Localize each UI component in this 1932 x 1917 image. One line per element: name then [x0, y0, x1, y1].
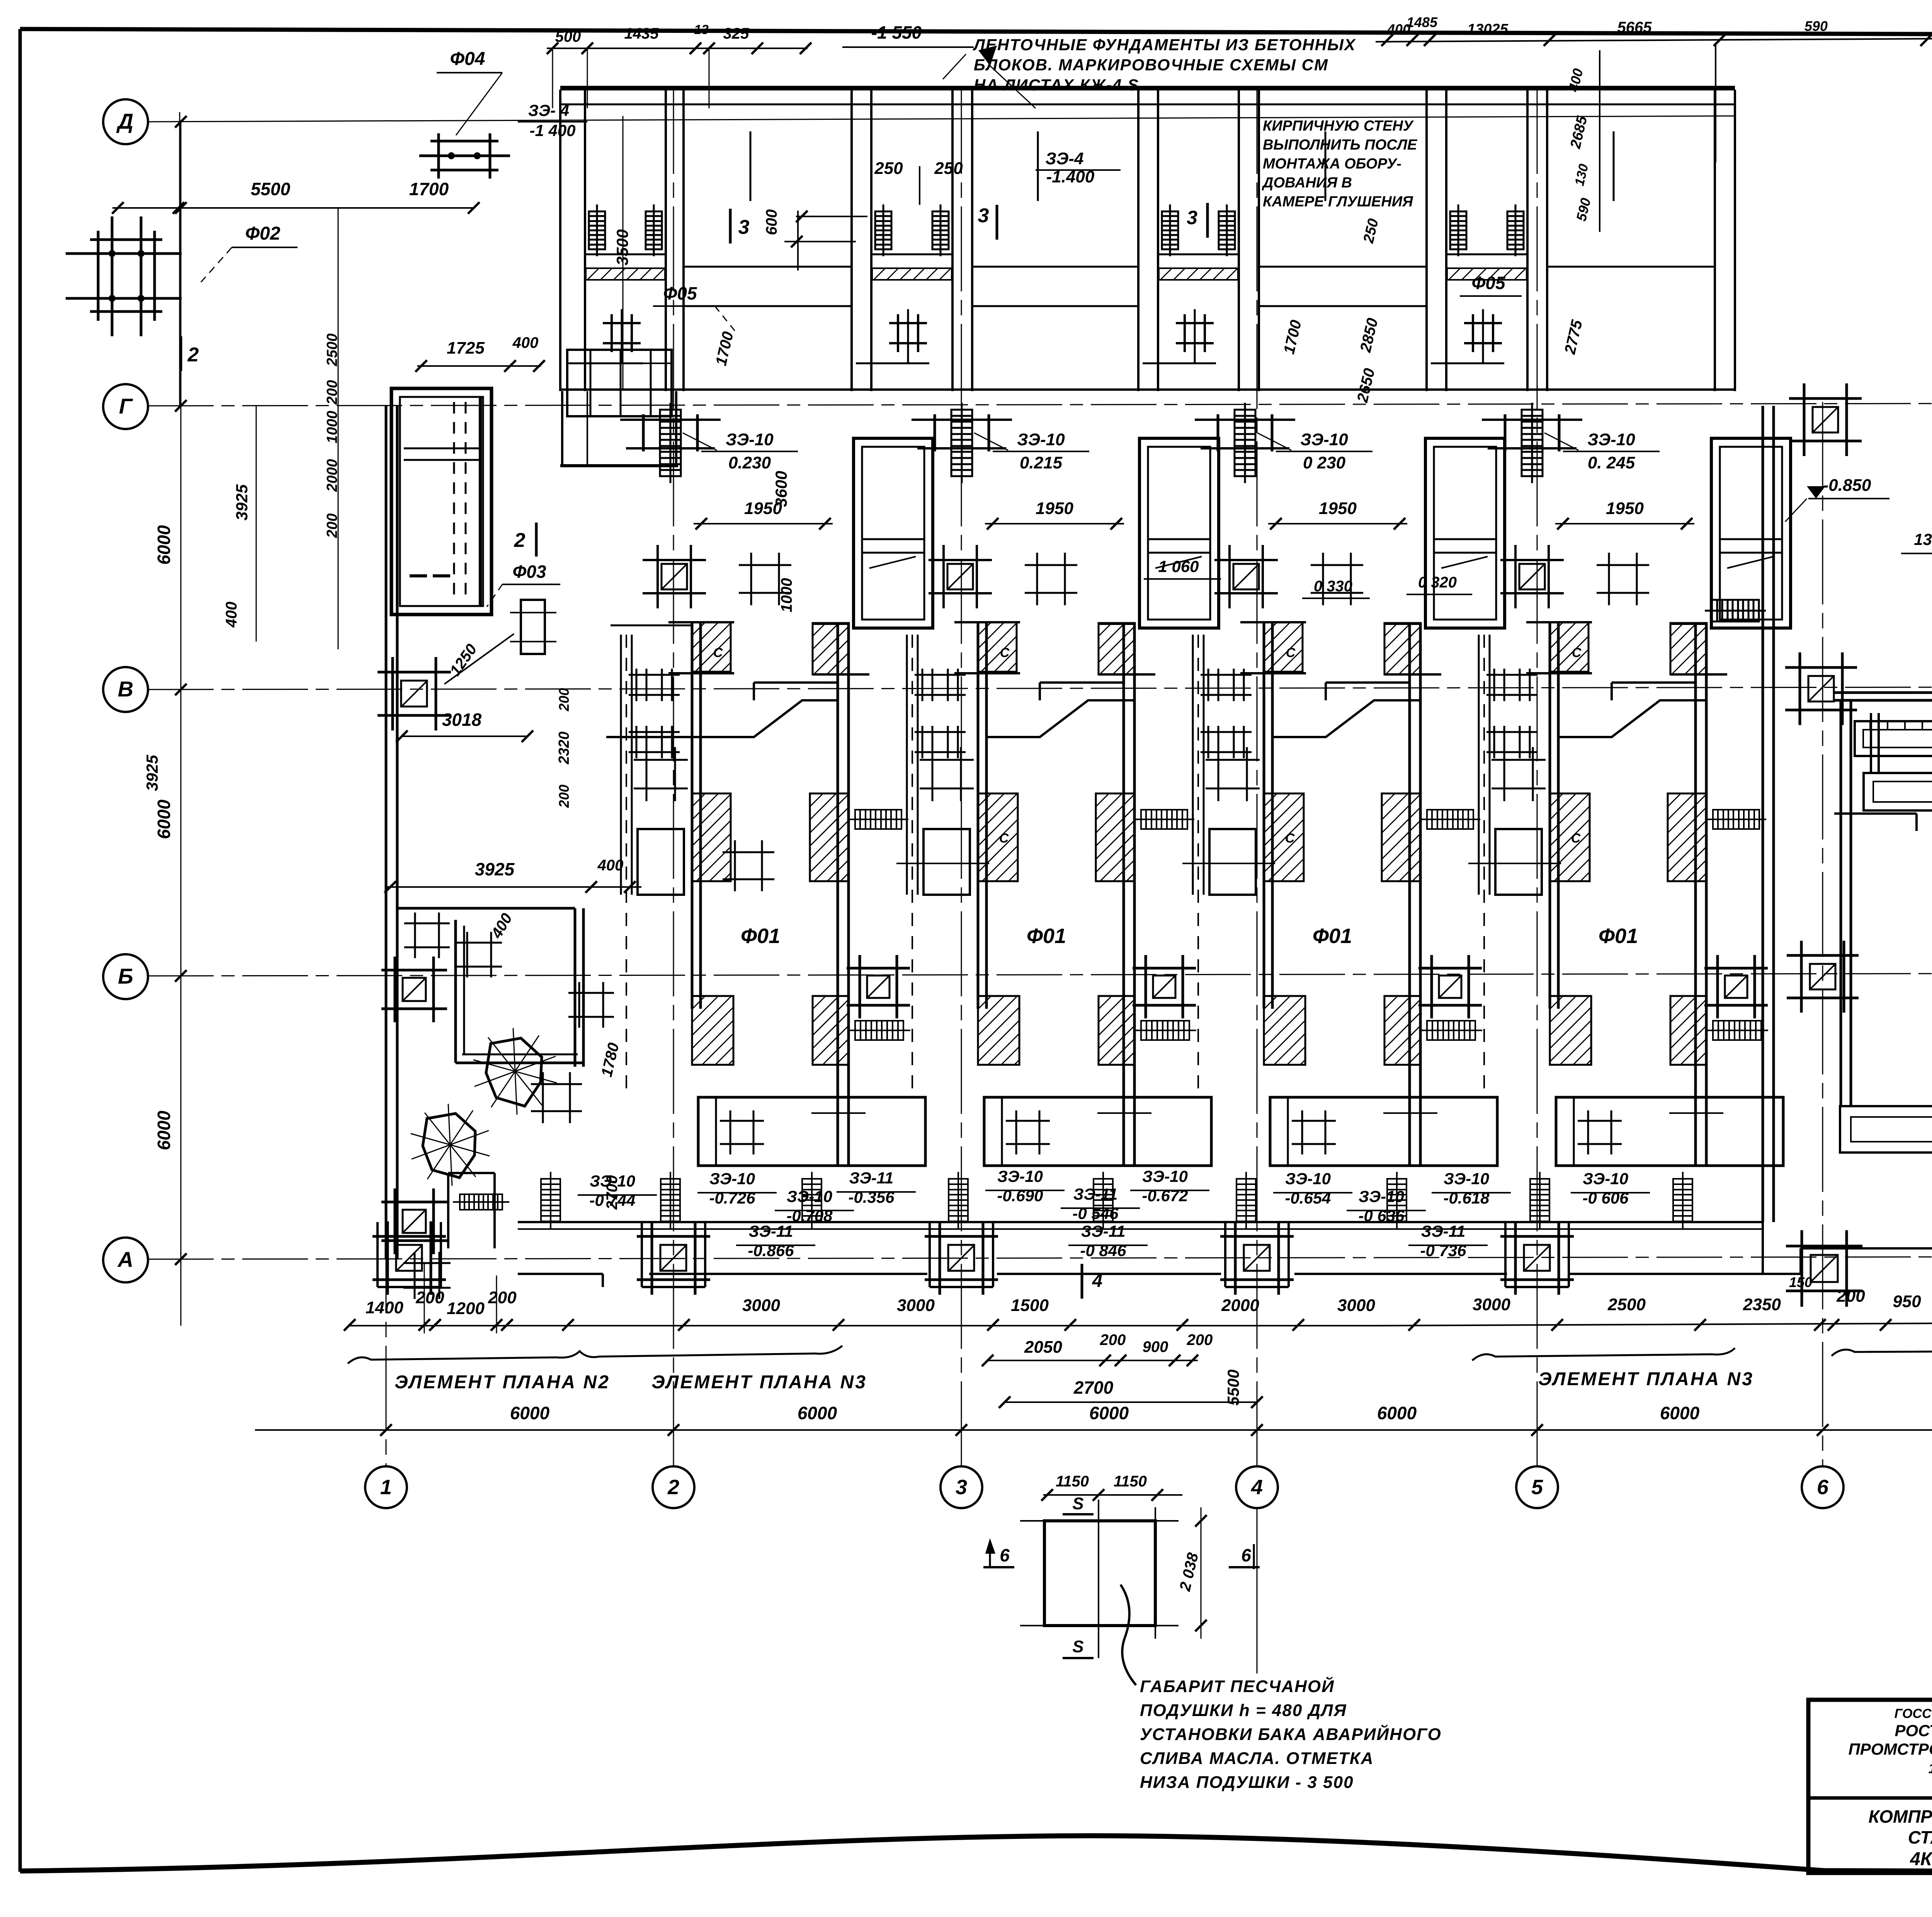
column mark	[720, 1110, 764, 1154]
svg-text:1725: 1725	[447, 339, 485, 358]
ventilation shaft walls	[1139, 438, 1219, 628]
axis line 4	[1257, 89, 1258, 1466]
header wall with chamfer	[606, 700, 838, 737]
svg-text:ЗЭ-10: ЗЭ-10	[1583, 1170, 1628, 1188]
svg-text:С: С	[1285, 831, 1295, 846]
room (wide) interior	[1259, 266, 1427, 268]
svg-text:С: С	[1571, 831, 1581, 846]
dim 1400 leaders	[424, 1264, 425, 1333]
svg-text:5500: 5500	[1224, 1369, 1242, 1405]
dimension 1250 (slanted)	[444, 634, 514, 684]
column mark	[1311, 553, 1363, 605]
svg-text:5665: 5665	[1617, 19, 1652, 36]
column mark	[634, 747, 688, 801]
hatched pier	[1668, 793, 1706, 881]
svg-text:-0 546: -0 546	[1072, 1204, 1119, 1222]
svg-text:Ф05: Ф05	[663, 283, 697, 303]
svg-text:S: S	[1072, 1637, 1083, 1656]
svg-text:2500: 2500	[1607, 1295, 1646, 1314]
svg-text:ГАБАРИТ ПЕСЧАНОЙ: ГАБАРИТ ПЕСЧАНОЙ	[1140, 1676, 1335, 1696]
window detail in strip left room	[567, 350, 672, 416]
hatched pier	[1264, 996, 1305, 1065]
svg-text:ПРОМСТРОИНИИПРОЕКТ: ПРОМСТРОИНИИПРОЕКТ	[1849, 1740, 1932, 1758]
column mark room1	[723, 840, 774, 891]
svg-text:250: 250	[934, 159, 963, 178]
lower pit outline	[698, 1097, 925, 1166]
svg-text:-0 744: -0 744	[589, 1191, 635, 1209]
lintels room1 left	[668, 621, 734, 623]
svg-text:1976 г.: 1976 г.	[1929, 1760, 1932, 1776]
wall jog at footing	[1224, 1222, 1226, 1287]
svg-text:БЛОКОВ. МАРКИРОВОЧНЫЕ СХЕМЫ СМ: БЛОКОВ. МАРКИРОВОЧНЫЕ СХЕМЫ СМ	[974, 56, 1328, 74]
svg-text:2000: 2000	[1221, 1296, 1259, 1315]
column mark	[403, 1252, 451, 1299]
room (narrow) interior	[585, 254, 666, 255]
svg-text:Б: Б	[118, 964, 133, 988]
anchor ladder	[1219, 204, 1235, 256]
svg-text:6000: 6000	[1660, 1403, 1700, 1423]
anchor ladder	[646, 204, 662, 256]
svg-text:13025: 13025	[1467, 21, 1509, 37]
lintel lines	[1099, 623, 1134, 625]
svg-text:ЗЭ-11: ЗЭ-11	[1421, 1222, 1466, 1240]
pit inner mark	[1383, 1112, 1437, 1114]
svg-text:1700: 1700	[409, 179, 449, 199]
room (wide) interior	[972, 266, 1138, 268]
svg-text:1485: 1485	[1406, 14, 1438, 30]
svg-text:500: 500	[555, 28, 581, 45]
axis bubble 1	[365, 1466, 407, 1508]
svg-text:ЗЭ-11: ЗЭ-11	[1081, 1222, 1126, 1240]
svg-text:ЗЭ-10: ЗЭ-10	[1285, 1170, 1331, 1188]
anchor ladder	[1706, 810, 1766, 829]
small walls left annex bottom	[447, 1173, 449, 1248]
lower pit outline	[984, 1097, 1211, 1166]
wall tee at Г axis	[1217, 414, 1219, 451]
equipment outline	[1495, 829, 1542, 895]
annex bottom walls	[1762, 1222, 1764, 1274]
bottom foundation wall	[518, 1221, 1763, 1223]
anchor ladder	[1420, 810, 1480, 829]
column mark	[1006, 1110, 1050, 1154]
column pair mark	[629, 726, 680, 758]
lintel lines	[1384, 623, 1420, 625]
pit inner mark	[1097, 1112, 1151, 1114]
axis line Б	[148, 973, 1932, 976]
svg-text:200: 200	[488, 1288, 517, 1307]
dimension 2050 200 900 200	[988, 1360, 1198, 1361]
svg-text:1500: 1500	[1011, 1296, 1049, 1315]
svg-text:3000: 3000	[897, 1296, 935, 1315]
svg-text:-0.708: -0.708	[786, 1207, 833, 1225]
hatched pier	[692, 622, 731, 672]
svg-text:ЗЭ-10: ЗЭ-10	[787, 1187, 832, 1205]
anchor ladder	[875, 204, 891, 256]
svg-text:4: 4	[1251, 1476, 1263, 1499]
svg-text:-0.690: -0.690	[997, 1187, 1043, 1205]
svg-text:ЗЭ-10: ЗЭ-10	[1142, 1167, 1188, 1185]
wall (upper strip partition)	[1526, 90, 1529, 391]
footing А axis	[637, 1221, 710, 1295]
svg-text:ГОССТРОЙ СССР: ГОССТРОЙ СССР	[1895, 1706, 1932, 1721]
svg-text:-0 736: -0 736	[1420, 1241, 1466, 1260]
sand cushion detail square	[1044, 1521, 1155, 1626]
anchor ladder	[1673, 1172, 1692, 1228]
anchor ladder	[1134, 810, 1194, 829]
anchor ladder	[1094, 1172, 1113, 1228]
column pair mark	[1486, 669, 1537, 701]
svg-text:С: С	[1000, 645, 1010, 660]
svg-text:250: 250	[874, 159, 903, 178]
wall tee at Г axis	[642, 414, 645, 451]
svg-text:МОНТАЖА ОБОРУ-: МОНТАЖА ОБОРУ-	[1263, 156, 1401, 172]
column mark	[929, 545, 992, 608]
svg-text:-0.726: -0.726	[709, 1189, 755, 1207]
svg-text:5500: 5500	[251, 179, 291, 199]
svg-text:-0.356: -0.356	[848, 1188, 895, 1206]
hatched pier	[978, 793, 1018, 881]
svg-text:200: 200	[324, 513, 340, 538]
svg-text:6000: 6000	[1089, 1403, 1129, 1423]
column mark	[1500, 545, 1564, 608]
anchor ladder	[1162, 204, 1178, 256]
svg-text:ЗЭ-4: ЗЭ-4	[1045, 149, 1083, 168]
axis bubble Б (left)	[103, 954, 148, 999]
svg-text:6: 6	[1241, 1545, 1251, 1565]
svg-text:-1 550: -1 550	[871, 22, 922, 43]
svg-text:Ф01: Ф01	[1599, 924, 1638, 948]
svg-text:1435: 1435	[624, 25, 659, 42]
svg-text:ЗЭ-10: ЗЭ-10	[1359, 1187, 1404, 1205]
foundation footing	[1133, 955, 1196, 1018]
wall tee at Г axis	[1504, 414, 1507, 451]
column pair mark	[915, 669, 966, 701]
room right wall (corridor)	[1408, 625, 1411, 1166]
room (wide) interior	[684, 266, 852, 268]
svg-text:-0.866: -0.866	[748, 1241, 794, 1260]
hatched pier	[813, 623, 849, 674]
upper building top wall	[560, 86, 1735, 90]
header ledge	[1612, 681, 1696, 684]
foundation footing	[1704, 955, 1768, 1018]
main hall left wall	[385, 406, 388, 1259]
svg-text:ЗЭ-10: ЗЭ-10	[1587, 430, 1635, 449]
column mark	[1025, 553, 1077, 605]
svg-text:-0.654: -0.654	[1285, 1189, 1331, 1207]
foundation footing	[1789, 383, 1862, 456]
svg-text:325: 325	[723, 25, 749, 42]
svg-text:3: 3	[956, 1476, 967, 1499]
svg-text:-1 400: -1 400	[529, 121, 575, 140]
svg-text:Г: Г	[119, 394, 133, 418]
svg-text:НА ЛИСТАХ КЖ-4 S: НА ЛИСТАХ КЖ-4 S	[974, 76, 1139, 94]
svg-text:1400: 1400	[366, 1298, 403, 1317]
wall (upper strip partition)	[951, 90, 954, 391]
svg-text:400: 400	[597, 857, 624, 874]
column mark	[531, 1072, 582, 1123]
wall (upper strip partition)	[1238, 90, 1240, 391]
lower pit outline	[1270, 1097, 1497, 1166]
svg-text:ЭЛЕМЕНТ ПЛАНА N3: ЭЛЕМЕНТ ПЛАНА N3	[1538, 1369, 1754, 1389]
wall pair at axis6 below В	[1870, 713, 1872, 773]
svg-text:Ф01: Ф01	[741, 924, 780, 948]
anchor ladder	[1530, 1172, 1549, 1228]
foundation footing	[1785, 652, 1857, 725]
anchor ladder	[1420, 1021, 1482, 1040]
svg-text:С: С	[1572, 645, 1582, 660]
room left wall of next room	[1549, 622, 1551, 1009]
svg-text:4К- 500А.: 4К- 500А.	[1910, 1849, 1932, 1869]
anchor ladder	[660, 403, 681, 483]
svg-text:ЗЭ-11: ЗЭ-11	[1073, 1185, 1118, 1203]
svg-text:S: S	[1072, 1494, 1083, 1513]
svg-text:600: 600	[763, 209, 780, 235]
column mark	[643, 545, 706, 608]
upper strip bottom wall	[560, 388, 1735, 391]
column pair mark	[1486, 726, 1537, 758]
wall jog at footing	[1504, 1222, 1507, 1287]
hatched pier	[1099, 623, 1135, 674]
room (narrow) interior	[871, 254, 952, 255]
tray lower rect	[1864, 773, 1932, 810]
svg-text:950: 950	[1893, 1292, 1921, 1311]
foundation footing	[1418, 955, 1482, 1018]
header ledge	[754, 681, 838, 684]
footing axis1 lower	[381, 1188, 447, 1254]
left annex walls	[397, 907, 575, 910]
svg-text:2: 2	[667, 1476, 679, 1499]
column mark	[920, 747, 974, 801]
axis line А	[148, 1256, 1932, 1259]
svg-text:1200: 1200	[447, 1299, 485, 1318]
column mark	[1206, 747, 1260, 801]
anchor ladder	[1450, 204, 1466, 256]
axis bubble Д (left)	[103, 99, 148, 144]
svg-text:КИРПИЧНУЮ СТЕНУ: КИРПИЧНУЮ СТЕНУ	[1263, 118, 1414, 134]
lintel to room1	[611, 625, 692, 627]
anchor ladder	[1705, 600, 1766, 621]
svg-text:СТАНЦИЯ: СТАНЦИЯ	[1908, 1827, 1932, 1847]
svg-text:200: 200	[1100, 1331, 1126, 1348]
svg-text:0.215: 0.215	[1020, 453, 1063, 472]
dimension row 6000	[255, 1429, 1932, 1431]
column Ф03	[521, 600, 545, 654]
dimension 1950	[694, 523, 833, 524]
svg-text:Ф01: Ф01	[1313, 924, 1352, 948]
equipment outline	[923, 829, 970, 895]
anchor ladder	[1507, 204, 1524, 256]
svg-text:Ф01: Ф01	[1027, 924, 1066, 948]
hatched pier	[1264, 622, 1303, 672]
foundation footing	[378, 657, 451, 730]
svg-text:Ф05: Ф05	[1471, 273, 1505, 293]
svg-text:СЛИВА МАСЛА. ОТМЕТКА: СЛИВА МАСЛА. ОТМЕТКА	[1140, 1749, 1374, 1768]
label ЗЭ-10	[993, 451, 1089, 452]
hatched pier	[978, 996, 1019, 1065]
axis line 1	[386, 406, 387, 1466]
svg-text:КОМПРЕССОРНАЯ: КОМПРЕССОРНАЯ	[1868, 1806, 1932, 1827]
title block	[1808, 1700, 1932, 1873]
wall (upper strip partition)	[850, 90, 853, 391]
leader to note	[943, 54, 966, 79]
dim 1725 400	[417, 365, 541, 367]
axis bubble 4	[1236, 1466, 1278, 1508]
footing А axis	[925, 1221, 998, 1295]
svg-text:-0.850: -0.850	[1823, 476, 1871, 495]
svg-text:Ф02: Ф02	[245, 223, 281, 244]
svg-text:1000: 1000	[778, 578, 795, 613]
svg-text:5: 5	[1531, 1476, 1543, 1499]
Ф02 footing detail	[66, 216, 182, 336]
hatched pier	[1096, 793, 1134, 881]
dimension chain 500 1435 13 325	[547, 48, 808, 49]
axis line Д	[148, 116, 1735, 122]
anchor ladder	[541, 1172, 560, 1228]
anchor ladder	[951, 403, 972, 483]
svg-text:3: 3	[978, 204, 989, 227]
lower pit outline	[1556, 1097, 1783, 1166]
hatched sill band	[1447, 268, 1527, 280]
room right wall (corridor)	[837, 625, 839, 1166]
wall (upper strip partition)	[559, 90, 561, 391]
svg-text:КАМЕРЕ ГЛУШЕНИЯ: КАМЕРЕ ГЛУШЕНИЯ	[1263, 194, 1413, 210]
axis bubble 6	[1802, 1466, 1844, 1508]
hatched pier	[1670, 996, 1707, 1065]
anchor ladder	[802, 1172, 821, 1228]
svg-text:-0.672: -0.672	[1142, 1187, 1188, 1205]
axis line 6	[1822, 402, 1823, 1466]
hatched pier	[1550, 622, 1588, 672]
column pair mark	[1201, 669, 1252, 701]
hatched sill band	[586, 268, 665, 280]
svg-text:ЗЭ-10: ЗЭ-10	[709, 1170, 755, 1188]
axis bubble А (left)	[103, 1238, 148, 1282]
svg-text:В: В	[118, 677, 133, 701]
svg-text:2000: 2000	[324, 459, 340, 492]
header wall with chamfer	[1272, 700, 1410, 737]
section mark 4 (bottom)	[1081, 1264, 1083, 1299]
dimension chain top right	[1376, 39, 1932, 42]
header ledge	[1040, 681, 1124, 684]
machine room outer walls	[1834, 691, 1932, 694]
hatched pier	[1550, 793, 1590, 881]
corridor chase walls	[1478, 635, 1480, 895]
svg-text:А: А	[117, 1247, 133, 1272]
label ЗЭ-10	[701, 451, 798, 452]
dimension 1950	[1555, 523, 1694, 524]
hatched pier	[1099, 996, 1135, 1065]
svg-text:3000: 3000	[1337, 1296, 1375, 1315]
svg-text:400: 400	[512, 334, 539, 351]
header ledge	[1326, 681, 1410, 684]
svg-text:3600: 3600	[772, 471, 790, 507]
anchor ladder	[589, 204, 605, 256]
anchor ladder	[1134, 1021, 1196, 1040]
hatched sill band	[1159, 268, 1238, 280]
svg-text:Ф04: Ф04	[450, 49, 485, 69]
column mark	[1578, 1110, 1622, 1154]
equipment outline	[1209, 829, 1256, 895]
column mark	[739, 553, 791, 605]
room (narrow) interior	[1158, 254, 1239, 255]
svg-text:ЗЭ-11: ЗЭ-11	[849, 1169, 894, 1187]
column mark	[1176, 314, 1214, 352]
hatched pier	[810, 793, 849, 881]
anchor ladder	[949, 1172, 968, 1228]
label ЗЭ-10	[1276, 451, 1372, 452]
ventilation shaft walls	[854, 438, 933, 628]
svg-text:900: 900	[1143, 1338, 1168, 1355]
ventilation shaft walls	[1425, 438, 1505, 628]
header wall with chamfer	[1558, 700, 1696, 737]
axis bubble Г (left)	[103, 384, 148, 429]
dim ticks 600 in wide room 1	[796, 216, 867, 217]
tray down wall	[1834, 812, 1917, 815]
dim 1150 1150	[1043, 1494, 1182, 1496]
rock outline	[486, 1038, 542, 1106]
foundation footing	[1787, 941, 1859, 1013]
label ЗЭ-10	[1563, 451, 1660, 452]
svg-text:2050: 2050	[1024, 1338, 1062, 1357]
dimension 3018	[402, 735, 527, 737]
column mark	[1214, 545, 1278, 608]
hatched pier	[1384, 623, 1421, 674]
rock outline	[423, 1113, 475, 1178]
svg-text:2350: 2350	[1743, 1295, 1781, 1314]
svg-text:ВЫПОЛНИТЬ ПОСЛЕ: ВЫПОЛНИТЬ ПОСЛЕ	[1263, 137, 1418, 153]
svg-text:6000: 6000	[154, 799, 174, 839]
column mark	[1492, 747, 1546, 801]
svg-text:ЛЕНТОЧНЫЕ ФУНДАМЕНТЫ ИЗ БЕТОНН: ЛЕНТОЧНЫЕ ФУНДАМЕНТЫ ИЗ БЕТОННЫХ	[973, 36, 1356, 54]
column pair mark	[1201, 726, 1252, 758]
svg-text:1150: 1150	[1056, 1473, 1089, 1490]
hatched pier	[978, 622, 1017, 672]
svg-text:200: 200	[1187, 1331, 1213, 1348]
foundation footing	[381, 957, 447, 1022]
axis line 2	[673, 89, 674, 1466]
wall tee at Г axis	[934, 414, 936, 451]
vertical dim line x=468	[180, 122, 182, 1326]
anchor ladder	[1236, 1172, 1256, 1228]
anchor ladder	[932, 204, 949, 256]
footing А axis	[1500, 1221, 1574, 1295]
anchor ladder	[848, 810, 908, 829]
hatched pier	[1382, 793, 1420, 881]
svg-text:3925: 3925	[475, 859, 515, 879]
svg-text:2320: 2320	[556, 732, 572, 765]
column mark	[456, 932, 502, 977]
cable tray top	[1855, 721, 1932, 756]
axis line В	[148, 686, 1932, 690]
svg-text:200: 200	[324, 380, 340, 405]
svg-text:УСТАНОВКИ БАКА АВАРИЙНОГО: УСТАНОВКИ БАКА АВАРИЙНОГО	[1140, 1724, 1442, 1744]
svg-text:0.230: 0.230	[728, 453, 771, 472]
svg-text:1150: 1150	[1114, 1473, 1147, 1490]
svg-text:2: 2	[514, 529, 526, 552]
pit inner mark	[811, 1112, 866, 1114]
header wall with chamfer	[986, 700, 1124, 737]
svg-text:3000: 3000	[1473, 1295, 1510, 1314]
column pair mark	[915, 726, 966, 758]
wall jog at footing	[929, 1222, 931, 1287]
svg-text:ЗЭ-11: ЗЭ-11	[749, 1222, 793, 1240]
column pair mark	[629, 669, 680, 701]
svg-text:0 230: 0 230	[1303, 453, 1346, 472]
anchor ladder	[661, 1172, 680, 1228]
corridor chase walls	[906, 635, 908, 895]
svg-text:1950: 1950	[1319, 499, 1357, 518]
svg-text:С: С	[713, 645, 723, 660]
